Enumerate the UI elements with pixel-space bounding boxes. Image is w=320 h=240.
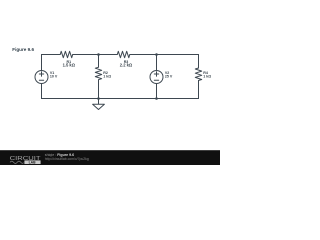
svg-text:LAB: LAB: [29, 161, 37, 165]
svg-text:http://circuitlab.com/c/7pu2kg: http://circuitlab.com/c/7pu2kg: [45, 157, 89, 161]
svg-text:10 V: 10 V: [50, 75, 58, 79]
svg-text:1 kΩ: 1 kΩ: [203, 75, 211, 79]
node junction top-R2: [97, 53, 100, 56]
voltage source V2: [150, 71, 163, 84]
wire bottom: [42, 98, 199, 100]
resistor R1: [60, 51, 72, 57]
svg-text:Figure 9.6: Figure 9.6: [12, 47, 34, 52]
logo LAB box: [24, 160, 40, 164]
ground: [93, 99, 105, 110]
node junction top-V2: [155, 53, 158, 56]
wire left (V1 branch): [41, 55, 43, 99]
wire R4 branch: [198, 55, 200, 99]
svg-text:1.5 kΩ: 1.5 kΩ: [63, 63, 76, 68]
wire V2 branch: [156, 55, 158, 99]
node junction bottom-ground: [97, 97, 100, 100]
wire top: [42, 54, 199, 56]
logo wave: [10, 161, 24, 163]
node junction bottom-V2: [155, 97, 158, 100]
svg-text:25 V: 25 V: [165, 75, 173, 79]
resistor R4: [195, 68, 201, 81]
svg-text:2.2 kΩ: 2.2 kΩ: [120, 63, 133, 68]
wire R2 branch: [98, 55, 100, 99]
resistor R3: [117, 51, 130, 57]
footer bar: [0, 150, 220, 165]
voltage source V1: [35, 71, 48, 84]
resistor R2: [95, 67, 101, 80]
svg-text:1 kΩ: 1 kΩ: [103, 75, 111, 79]
